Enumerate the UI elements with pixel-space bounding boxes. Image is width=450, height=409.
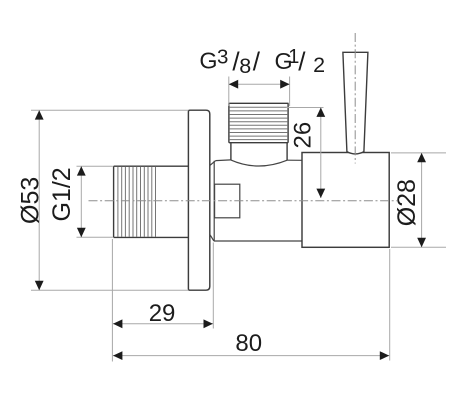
svg-text:/: / <box>298 47 306 77</box>
dimension 29 arrows <box>113 319 213 328</box>
body face line <box>213 161 215 241</box>
valve cylinder body Ø28 (right) <box>302 153 389 248</box>
extension line from pipe end (left, for 29/80) <box>111 239 113 362</box>
dimension 26 arrows <box>316 108 325 199</box>
svg-text:/: / <box>253 46 261 76</box>
top chamfer diagonal <box>210 161 216 166</box>
svg-text:G: G <box>199 48 217 74</box>
body barrel arc <box>231 160 288 166</box>
main horizontal centerline <box>89 200 398 202</box>
svg-text:8: 8 <box>239 54 251 78</box>
dimension 26 line <box>320 108 322 199</box>
extension line from wall face (for 29) <box>212 243 214 329</box>
valve body behind flange <box>210 160 303 241</box>
svg-text:G1/2: G1/2 <box>48 167 76 221</box>
vertical outlet pipe G3/8-G1/2 <box>228 103 288 160</box>
dimension Ø53 line <box>38 110 40 290</box>
dimension G1/2 arrows <box>77 166 86 237</box>
dimension G1/2 line <box>80 166 82 237</box>
wall flange plate (rosette) <box>188 110 209 290</box>
svg-text:29: 29 <box>149 300 176 327</box>
svg-text:Ø28: Ø28 <box>393 179 421 226</box>
inlet thread lines <box>118 167 156 237</box>
dimension label G3/8 / G1/2 <box>199 46 325 78</box>
dimension 80 line <box>113 355 390 357</box>
dimension 80 arrows <box>113 351 389 360</box>
dimension Ø28 extension lines <box>391 153 446 247</box>
extension line from cylinder right face (for 80) <box>389 249 391 361</box>
outlet thread lines <box>229 107 288 139</box>
svg-text:3: 3 <box>217 46 228 69</box>
bottom chamfer diagonal <box>210 234 214 241</box>
svg-text:Ø53: Ø53 <box>17 177 45 224</box>
square boss on body face <box>215 184 240 218</box>
dimension Ø28 line <box>421 153 423 247</box>
svg-text:80: 80 <box>235 330 262 357</box>
dimension Ø53 arrows <box>35 110 44 290</box>
dimension 29 line <box>113 323 214 325</box>
top shoulder line <box>216 159 231 162</box>
handle lever <box>343 52 368 154</box>
dimension G3/8 / G1/2 line <box>229 83 290 85</box>
neck to cylinder <box>287 159 302 161</box>
svg-text:26: 26 <box>290 122 317 149</box>
dimension G3/8 / G1/2 extension lines (top) <box>229 77 290 107</box>
handle vertical centerline <box>354 33 356 164</box>
dimension G1/2 extension lines (left) <box>77 166 113 237</box>
threaded inlet pipe G1/2 (horizontal, left) <box>114 166 189 237</box>
dimension G3/8 / G1/2 arrows <box>229 80 290 89</box>
dimension Ø53 extension lines <box>31 110 188 290</box>
body bottom line <box>214 240 302 242</box>
dimension 26 extension line <box>286 107 324 109</box>
dimension Ø28 arrows <box>417 153 426 247</box>
svg-text:2: 2 <box>313 53 325 77</box>
